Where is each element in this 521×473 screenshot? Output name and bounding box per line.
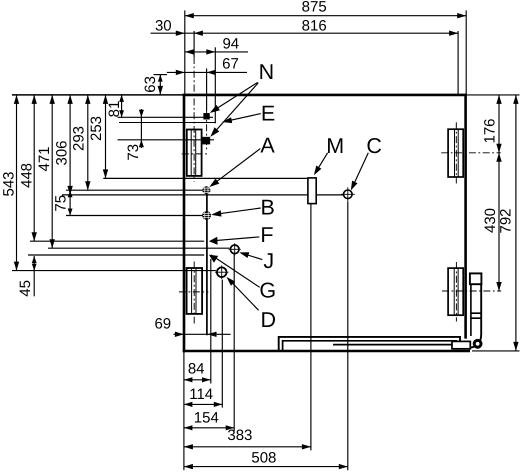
door bottom edge line [333,344,458,346]
svg-text:M: M [326,134,344,158]
base recess inner line [283,341,457,350]
appliance outline: top edge [183,94,467,97]
svg-text:A: A [260,133,275,157]
svg-text:875: 875 [302,0,327,16]
feature line at point G [28,254,204,256]
upper hinge vertical center line [455,122,457,183]
svg-text:81: 81 [106,101,123,118]
dim 114 [184,403,222,405]
leader D to circle D [228,279,258,311]
spacer inner rail lines [190,130,192,176]
feature line at point D (543) [12,270,216,272]
appliance outline: right edge [464,94,467,339]
svg-text:D: D [261,308,277,332]
svg-text:E: E [261,101,275,125]
left edge extension below box [183,352,185,470]
dim 430 [498,153,500,291]
appliance outline: bottom edge [183,350,470,353]
door hinge bottom clip [452,341,470,348]
154 extension vertical from circle J [233,254,235,431]
dim 81 [121,95,123,117]
door hinge pin ring [474,340,481,347]
lower hinge plate inner lines [453,268,455,315]
svg-text:B: B [261,196,275,220]
leader G to pipe point G [211,255,260,287]
appliance outline: left edge [183,94,186,352]
point M bracket rectangle [308,178,316,204]
dim 792 [515,95,517,351]
point A hatched circle [202,186,210,194]
816 right extension [457,31,459,95]
feature line at point F (448) [30,240,204,242]
dim 543 left [16,95,18,271]
wall rail bottom line [62,194,308,196]
appliance top edge reference line right extension [466,94,520,96]
leader M to rect M [315,153,327,173]
extension line of point B [66,215,202,217]
dim 69 bottom (outside arrows) [174,333,231,335]
feature line at point J (471) [48,247,229,249]
connection point N1 small square [204,113,210,119]
lower hinge horizontal center line [442,290,501,292]
leader N to square N2 [212,83,258,135]
rear wall spacer top-left rectangle [187,130,202,176]
84 extension vertical [210,259,212,384]
door hinge top cap [470,273,482,284]
cord rect vertical center line [193,262,195,324]
line at point E [119,122,216,124]
svg-text:543: 543 [0,171,17,196]
lower hinge plate [448,268,463,315]
water pipe vertical line [206,193,208,335]
508 extension vertical from C [347,202,349,471]
dim 448 [33,95,35,241]
point D circle with crosshair [217,267,227,277]
svg-text:253: 253 [88,116,105,141]
upper hinge plate inner lines [454,129,456,177]
extension line of point A [66,189,203,191]
upper hinge plate [448,129,463,177]
dim 508 [184,466,348,468]
svg-text:430: 430 [482,208,499,233]
svg-text:N: N [259,60,275,84]
leader N to square N1 [212,83,258,112]
svg-text:67: 67 [222,56,239,73]
connection point N2 square [203,137,210,144]
power cord bottom-left rectangle [187,268,203,314]
base recess outer line [279,337,460,350]
svg-text:508: 508 [251,450,276,467]
wall rail bottom line right part to point C [316,194,344,196]
dim 30 (outside arrow) [176,31,185,36]
extension line for dim 73 at N2 [118,139,215,141]
792 bottom extension line [472,350,520,352]
dim 253 [105,95,107,178]
leader A to point A [211,149,260,186]
svg-text:84: 84 [188,361,205,378]
dim 45 (same line as 448) [33,256,35,296]
dim 73 (outside arrows) [140,109,142,148]
leader F to pipe point F [211,237,259,241]
svg-text:69: 69 [154,316,171,333]
dim 471 [51,95,53,248]
dim 816 [151,32,459,34]
svg-text:73: 73 [125,144,142,161]
point B hatched circle [202,211,211,220]
wall rail top line [103,177,308,179]
leader J to circle J [241,253,262,260]
svg-text:306: 306 [54,140,71,165]
svg-text:383: 383 [227,427,252,444]
svg-text:293: 293 [71,126,88,151]
dim 875 top [185,15,466,17]
point J circle with crosshair [230,245,239,254]
svg-text:154: 154 [194,410,219,427]
875 right extension [465,10,467,95]
door hinge inner bar line [471,284,482,336]
svg-text:45: 45 [17,280,34,297]
dim 67 (outside arrows) [167,71,247,73]
appliance top edge reference line (thin, extends left) [12,94,184,96]
leader B to point B [213,208,261,215]
svg-text:448: 448 [19,163,36,188]
lower hinge vertical center line [455,262,457,322]
svg-text:63: 63 [142,76,159,93]
dim 94 [185,51,248,53]
dim 154 [184,427,234,429]
dim 306 [69,95,71,195]
left edge extension above box [184,10,186,95]
svg-text:J: J [263,249,274,273]
cord rect horizontal center line [179,291,208,293]
spacer vertical center line (solid above, dashed below) [193,31,195,57]
leader E to point E [224,114,261,122]
114 extension vertical from circle D [221,280,223,408]
svg-text:94: 94 [222,35,239,52]
cord rect inner rail lines [191,268,193,314]
dim 383 [184,446,311,448]
dim 75 (same line as 306) [69,190,71,215]
svg-text:G: G [259,279,276,303]
door hinge outer bar with rounded corner [459,284,481,348]
leader C to circle C [352,153,368,188]
N squares center line dashed [206,111,208,151]
point C circle with crosshair [344,190,353,199]
upper hinge horizontal center line [441,152,501,154]
extension line for dim 81 at N1 [118,116,214,118]
svg-text:816: 816 [302,17,327,34]
svg-text:114: 114 [189,386,213,403]
svg-text:C: C [366,134,382,158]
dim 63 vertical with tick [154,74,168,76]
svg-text:F: F [260,223,273,247]
svg-text:792: 792 [497,208,514,233]
extension line x for dim 94 / point E [214,47,216,123]
dim 176 right [498,95,500,153]
dim 84 [184,379,211,381]
svg-text:471: 471 [36,146,53,171]
spacer horizontal center line [182,153,208,155]
svg-text:30: 30 [155,18,172,35]
svg-text:176: 176 [482,118,499,143]
dim 293 [87,95,89,190]
svg-text:75: 75 [52,195,69,212]
383 extension vertical from M [310,204,312,451]
N squares center line above box [206,69,208,111]
